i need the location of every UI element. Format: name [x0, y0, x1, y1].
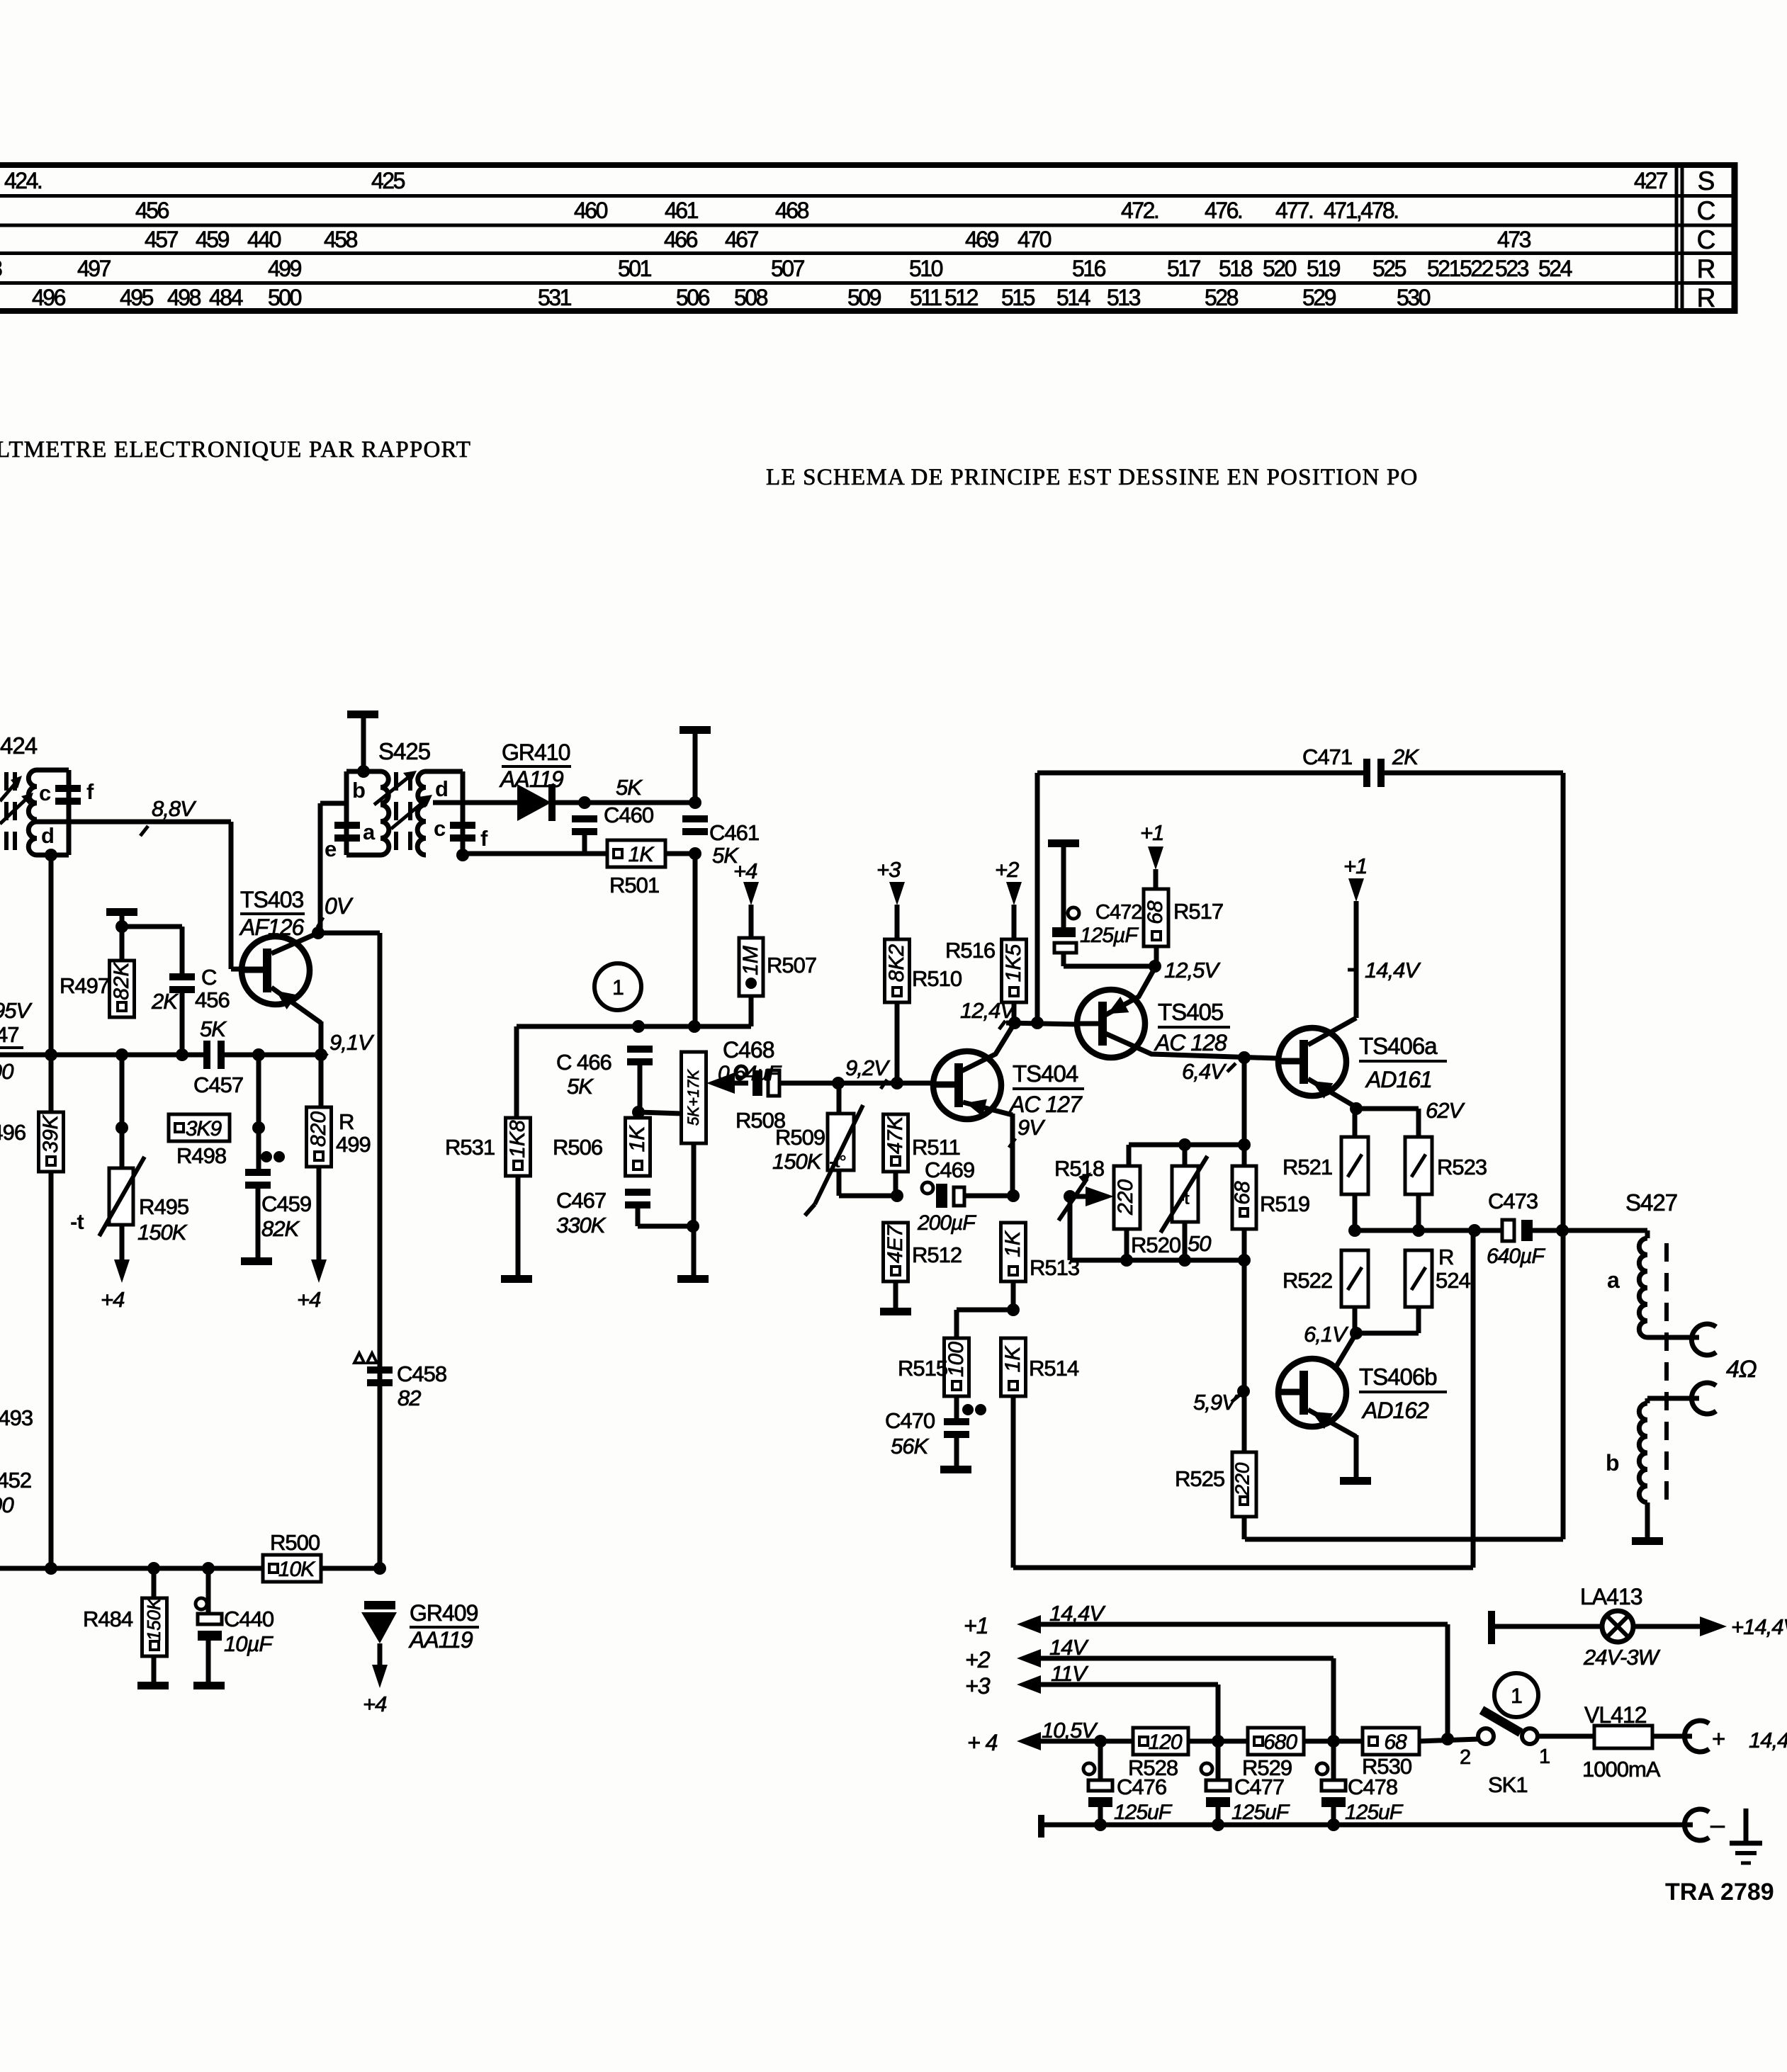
- svg-text:467: 467: [725, 227, 759, 252]
- svg-text:c: c: [39, 781, 51, 805]
- svg-text:S427: S427: [1625, 1189, 1677, 1216]
- svg-text:506: 506: [676, 285, 710, 310]
- svg-text:521: 521: [1427, 256, 1461, 281]
- svg-text:+4: +4: [733, 859, 757, 883]
- svg-text:200µF: 200µF: [917, 1211, 976, 1235]
- svg-text:47K: 47K: [884, 1115, 907, 1154]
- svg-text:14V: 14V: [1049, 1635, 1089, 1660]
- svg-text:458: 458: [324, 227, 358, 252]
- svg-text:SK1: SK1: [1488, 1772, 1528, 1797]
- svg-text:R517: R517: [1173, 899, 1223, 924]
- svg-text:AA119: AA119: [408, 1627, 473, 1653]
- svg-text:680: 680: [1263, 1731, 1297, 1754]
- svg-text:528: 528: [1205, 285, 1239, 310]
- svg-text:R497: R497: [60, 973, 109, 998]
- svg-text:+ 4: + 4: [967, 1730, 998, 1755]
- svg-text:C473: C473: [1488, 1189, 1538, 1213]
- svg-text:68: 68: [1144, 900, 1167, 924]
- svg-text:GR409: GR409: [410, 1600, 478, 1626]
- svg-text:LTMETRE ELECTRONIQUE PAR RAPPO: LTMETRE ELECTRONIQUE PAR RAPPORT: [0, 437, 471, 463]
- svg-text:AD162: AD162: [1361, 1398, 1429, 1423]
- svg-text:R507: R507: [767, 953, 816, 978]
- svg-text:470: 470: [1017, 227, 1052, 252]
- svg-text:509: 509: [847, 285, 881, 310]
- svg-text:d: d: [435, 776, 448, 801]
- svg-text:524: 524: [1538, 256, 1572, 281]
- svg-text:531: 531: [538, 285, 572, 310]
- svg-text:424.: 424.: [4, 168, 41, 193]
- svg-text:C452: C452: [0, 1468, 31, 1493]
- svg-text:4Ω: 4Ω: [1726, 1356, 1757, 1383]
- svg-text:524: 524: [1436, 1268, 1470, 1293]
- svg-text:473: 473: [1497, 227, 1531, 252]
- svg-text:0,64µF: 0,64µF: [718, 1062, 782, 1085]
- svg-text:1: 1: [1539, 1745, 1550, 1768]
- svg-text:C478: C478: [1348, 1774, 1397, 1799]
- svg-text:330K: 330K: [556, 1213, 607, 1238]
- svg-text:R: R: [1438, 1245, 1453, 1269]
- svg-text:R484: R484: [83, 1607, 133, 1631]
- svg-text:R531: R531: [445, 1135, 495, 1160]
- svg-text:9,2V: 9,2V: [845, 1055, 891, 1080]
- svg-text:C468: C468: [723, 1037, 774, 1063]
- svg-text:+1: +1: [964, 1613, 988, 1638]
- svg-text:C469: C469: [925, 1157, 974, 1182]
- svg-text:11V: 11V: [1051, 1661, 1089, 1686]
- svg-text:C: C: [1697, 196, 1716, 225]
- svg-text:R: R: [1697, 283, 1716, 312]
- svg-text:-t: -t: [1179, 1189, 1190, 1208]
- svg-text:+4: +4: [101, 1287, 125, 1312]
- svg-text:b: b: [352, 778, 365, 803]
- svg-text:68: 68: [1384, 1731, 1407, 1754]
- svg-text:472.: 472.: [1121, 198, 1158, 223]
- svg-text:b: b: [1606, 1450, 1619, 1476]
- svg-text:6,4V: 6,4V: [1182, 1059, 1227, 1084]
- svg-text:1K5: 1K5: [1002, 944, 1025, 983]
- svg-text:VL412: VL412: [1584, 1702, 1647, 1728]
- svg-text:C470: C470: [885, 1408, 935, 1433]
- svg-text:e: e: [325, 837, 337, 861]
- svg-text:0V: 0V: [325, 893, 354, 919]
- svg-text:14,4V: 14,4V: [1049, 1601, 1106, 1626]
- svg-text:90: 90: [0, 1059, 13, 1084]
- svg-text:C458: C458: [397, 1361, 446, 1386]
- svg-text:477.: 477.: [1275, 198, 1312, 223]
- svg-text:R498: R498: [176, 1143, 226, 1168]
- svg-text:C459: C459: [261, 1191, 311, 1216]
- svg-text:507: 507: [771, 256, 805, 281]
- svg-text:469: 469: [965, 227, 999, 252]
- svg-text:499: 499: [268, 256, 302, 281]
- svg-text:5K: 5K: [616, 775, 643, 800]
- svg-text:+3: +3: [876, 857, 901, 882]
- svg-text:501: 501: [618, 256, 652, 281]
- svg-text:466: 466: [664, 227, 698, 252]
- svg-text:+1: +1: [1140, 820, 1163, 845]
- svg-text:a: a: [1607, 1267, 1620, 1293]
- svg-text:+1: +1: [1343, 854, 1367, 878]
- svg-text:5K: 5K: [200, 1017, 227, 1041]
- svg-text:461: 461: [665, 198, 699, 223]
- svg-text:471,478.: 471,478.: [1324, 198, 1398, 223]
- svg-text:1: 1: [1511, 1685, 1522, 1708]
- svg-text:+: +: [1712, 1726, 1725, 1752]
- svg-text:1K: 1K: [1001, 1230, 1025, 1257]
- svg-text:-t°: -t°: [829, 1152, 846, 1172]
- svg-text:95V: 95V: [0, 998, 33, 1023]
- svg-text:1: 1: [612, 976, 624, 1000]
- svg-text:1K: 1K: [1001, 1345, 1025, 1373]
- svg-text:14,4V: 14,4V: [1365, 958, 1421, 983]
- svg-text:497: 497: [77, 256, 111, 281]
- svg-text:R521: R521: [1283, 1155, 1332, 1179]
- svg-text:508: 508: [734, 285, 768, 310]
- svg-text:125uF: 125uF: [1345, 1801, 1404, 1824]
- svg-text:R523: R523: [1437, 1155, 1487, 1179]
- svg-text:510: 510: [909, 256, 943, 281]
- svg-text:R495: R495: [139, 1194, 188, 1219]
- svg-text:529: 529: [1302, 285, 1336, 310]
- svg-text:530: 530: [1397, 285, 1431, 310]
- svg-text:R520: R520: [1131, 1233, 1181, 1257]
- svg-text:+4: +4: [363, 1692, 387, 1716]
- svg-text:640µF: 640µF: [1487, 1245, 1545, 1268]
- svg-text:TS405: TS405: [1158, 999, 1223, 1025]
- svg-text:82K: 82K: [110, 961, 133, 1000]
- svg-text:513: 513: [1107, 285, 1141, 310]
- svg-text:496: 496: [32, 285, 66, 310]
- svg-text:515: 515: [1001, 285, 1035, 310]
- svg-text:R: R: [339, 1109, 354, 1134]
- svg-text:TS403: TS403: [240, 887, 303, 912]
- svg-text:R506: R506: [553, 1135, 602, 1160]
- svg-text:10µF: 10µF: [224, 1631, 274, 1656]
- svg-text:+3: +3: [965, 1673, 991, 1699]
- svg-text:10K: 10K: [278, 1558, 316, 1581]
- svg-text:456: 456: [135, 198, 169, 223]
- svg-text:484: 484: [209, 285, 243, 310]
- svg-text:5K: 5K: [567, 1074, 594, 1099]
- svg-text:125uF: 125uF: [1114, 1801, 1173, 1824]
- svg-text:AC 128: AC 128: [1154, 1030, 1227, 1055]
- svg-text:2K: 2K: [151, 989, 179, 1014]
- svg-text:523: 523: [1495, 256, 1529, 281]
- svg-text:457: 457: [145, 227, 179, 252]
- svg-text:+4: +4: [297, 1287, 321, 1312]
- svg-text:C457: C457: [193, 1072, 243, 1097]
- svg-text:100: 100: [945, 1342, 968, 1377]
- svg-text:R518: R518: [1054, 1156, 1104, 1181]
- svg-text:TS406a: TS406a: [1359, 1033, 1438, 1059]
- svg-text:5K+17K: 5K+17K: [684, 1069, 702, 1126]
- svg-text:512: 512: [945, 285, 979, 310]
- svg-text:522: 522: [1460, 256, 1494, 281]
- svg-text:TS406b: TS406b: [1359, 1364, 1437, 1390]
- svg-text:495: 495: [120, 285, 154, 310]
- svg-text:24V-3W: 24V-3W: [1583, 1645, 1661, 1670]
- svg-text:56K: 56K: [891, 1434, 929, 1459]
- svg-text:68: 68: [1231, 1181, 1254, 1205]
- svg-text:6,1V: 6,1V: [1304, 1322, 1349, 1347]
- svg-text:1K: 1K: [628, 843, 655, 866]
- svg-text:R500: R500: [270, 1530, 320, 1555]
- svg-text:12,5V: 12,5V: [1164, 958, 1221, 983]
- svg-text:–: –: [1710, 1810, 1725, 1839]
- svg-text:c: c: [434, 816, 446, 841]
- svg-text:518: 518: [1219, 256, 1253, 281]
- svg-text:R501: R501: [609, 873, 659, 898]
- svg-text:TRA 2789: TRA 2789: [1665, 1879, 1774, 1906]
- svg-text:220: 220: [1231, 1462, 1253, 1496]
- svg-text:150K: 150K: [137, 1220, 188, 1245]
- svg-text:C461: C461: [709, 820, 759, 845]
- svg-text:150K: 150K: [143, 1597, 164, 1641]
- svg-text:190: 190: [0, 1493, 13, 1517]
- svg-text:C 466: C 466: [556, 1050, 611, 1075]
- svg-text:514: 514: [1056, 285, 1090, 310]
- svg-text:47: 47: [0, 1022, 18, 1047]
- svg-text:499: 499: [336, 1132, 371, 1157]
- svg-text:120: 120: [1148, 1731, 1182, 1754]
- svg-text:+2: +2: [995, 857, 1019, 882]
- svg-text:C476: C476: [1117, 1774, 1166, 1799]
- svg-text:LA413: LA413: [1580, 1584, 1642, 1609]
- svg-text:R525: R525: [1175, 1466, 1224, 1491]
- svg-text:517: 517: [1167, 256, 1201, 281]
- svg-text:39K: 39K: [39, 1114, 62, 1153]
- svg-text:9,1V: 9,1V: [329, 1030, 375, 1055]
- svg-text:C472: C472: [1095, 901, 1141, 924]
- svg-text:516: 516: [1072, 256, 1106, 281]
- svg-text:C: C: [1697, 225, 1716, 254]
- svg-text:459: 459: [196, 227, 230, 252]
- svg-text:125uF: 125uF: [1231, 1801, 1290, 1824]
- svg-text:1K8: 1K8: [506, 1120, 529, 1158]
- svg-text:10,5V: 10,5V: [1042, 1718, 1098, 1743]
- svg-text:S: S: [1698, 166, 1715, 196]
- svg-text:456: 456: [195, 987, 230, 1012]
- svg-text:AC 127: AC 127: [1008, 1092, 1083, 1117]
- svg-text:424: 424: [0, 732, 38, 759]
- svg-text:50: 50: [1188, 1231, 1211, 1256]
- svg-text:1M: 1M: [739, 946, 762, 975]
- svg-text:468: 468: [775, 198, 809, 223]
- svg-text:3K9: 3K9: [186, 1117, 222, 1140]
- svg-text:8K2: 8K2: [885, 944, 908, 983]
- svg-text:R515: R515: [898, 1356, 947, 1381]
- svg-text:4E7: 4E7: [884, 1225, 907, 1264]
- svg-text:8,8V: 8,8V: [152, 796, 197, 821]
- svg-text:LE SCHEMA DE PRINCIPE EST DESS: LE SCHEMA DE PRINCIPE EST DESSINE EN POS…: [766, 465, 1419, 490]
- svg-text:+14,4V: +14,4V: [1731, 1614, 1787, 1639]
- svg-text:R511: R511: [912, 1135, 960, 1160]
- svg-text:R509: R509: [775, 1125, 825, 1150]
- svg-text:GR410: GR410: [502, 740, 570, 765]
- svg-text:C: C: [201, 965, 217, 990]
- svg-text:820: 820: [307, 1111, 330, 1147]
- svg-text:C467: C467: [556, 1188, 606, 1213]
- svg-text:476.: 476.: [1205, 198, 1241, 223]
- svg-text:2: 2: [1460, 1746, 1470, 1769]
- svg-text:525: 525: [1372, 256, 1407, 281]
- svg-text:C460: C460: [604, 803, 654, 827]
- svg-text:AA119: AA119: [499, 766, 564, 792]
- svg-text:AD161: AD161: [1365, 1067, 1432, 1092]
- svg-text:511: 511: [910, 285, 942, 310]
- svg-text:TS404: TS404: [1013, 1060, 1078, 1087]
- svg-text:R496: R496: [0, 1120, 26, 1145]
- svg-text:9V: 9V: [1017, 1115, 1046, 1140]
- svg-text:500: 500: [268, 285, 302, 310]
- svg-text:440: 440: [247, 227, 281, 252]
- svg-text:R522: R522: [1283, 1268, 1332, 1293]
- svg-text:S425: S425: [378, 738, 430, 764]
- svg-text:220: 220: [1114, 1179, 1137, 1216]
- svg-text:427: 427: [1634, 168, 1668, 193]
- svg-text:14,4: 14,4: [1749, 1728, 1787, 1753]
- svg-text:R512: R512: [912, 1242, 962, 1267]
- svg-text:519: 519: [1307, 256, 1341, 281]
- svg-text:R: R: [1697, 254, 1716, 283]
- svg-text:82K: 82K: [261, 1216, 300, 1241]
- svg-text:C477: C477: [1234, 1774, 1284, 1799]
- svg-text:a: a: [363, 820, 376, 844]
- svg-text:C471: C471: [1302, 745, 1352, 769]
- svg-text:425: 425: [371, 168, 405, 193]
- svg-text:+2: +2: [965, 1647, 991, 1672]
- svg-text:82: 82: [398, 1386, 421, 1410]
- svg-text:125µF: 125µF: [1080, 924, 1139, 947]
- svg-text:d: d: [41, 823, 54, 848]
- svg-text:150K: 150K: [772, 1149, 823, 1174]
- svg-text:62V: 62V: [1426, 1098, 1465, 1123]
- svg-text:2K: 2K: [1392, 745, 1419, 769]
- svg-text:460: 460: [574, 198, 608, 223]
- svg-text:AF126: AF126: [239, 915, 304, 940]
- svg-text:520: 520: [1263, 256, 1297, 281]
- svg-text:R493: R493: [0, 1405, 33, 1430]
- svg-text:R516: R516: [945, 938, 995, 963]
- svg-text:498: 498: [167, 285, 201, 310]
- svg-text:R519: R519: [1260, 1191, 1309, 1216]
- svg-text:1K: 1K: [626, 1125, 649, 1153]
- svg-text:-t: -t: [70, 1209, 84, 1234]
- svg-text:1000mA: 1000mA: [1582, 1757, 1661, 1782]
- svg-text:C440: C440: [224, 1607, 274, 1631]
- svg-text:R514: R514: [1029, 1356, 1079, 1381]
- svg-text:R510: R510: [912, 966, 962, 991]
